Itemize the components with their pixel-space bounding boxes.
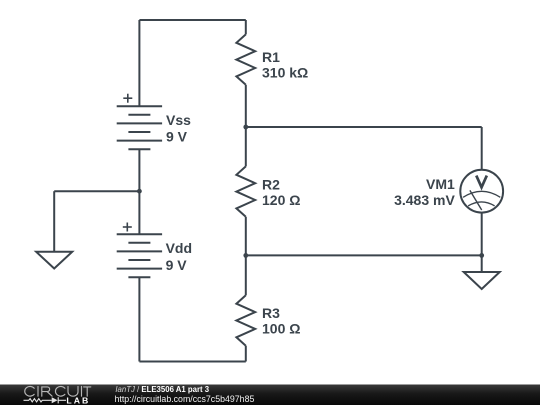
wire VM1 bottom lead [481,213,483,256]
svg-text:9 V: 9 V [166,128,188,144]
resistor R1 [236,34,255,84]
node C junction dot [137,189,142,194]
wire node B to right node [246,254,482,256]
svg-text:100 Ω: 100 Ω [262,321,300,337]
svg-text:http://circuitlab.com/ccs7c5b4: http://circuitlab.com/ccs7c5b497h85 [115,394,255,404]
svg-text:R1: R1 [262,49,280,65]
svg-text:3.483 mV: 3.483 mV [394,192,455,208]
wire R3 top lead [245,255,247,295]
wire top rail [139,19,245,21]
battery V1 Vss plates [117,106,162,149]
wire right ground lead [481,255,483,272]
voltmeter VM1 symbol [460,170,503,213]
node A junction dot [243,125,248,130]
logo resistor-diode symbol [24,397,67,403]
svg-text:310 kΩ: 310 kΩ [262,65,308,81]
node D junction dot [479,253,484,258]
wire Vdd top lead [138,191,140,234]
resistor R2 [236,166,255,216]
wire R1 top lead [245,20,247,34]
footer bar [0,385,540,406]
wire left ground lead [53,191,55,252]
svg-text:R3: R3 [262,305,280,321]
wire node A to voltmeter [246,126,482,128]
svg-text:9 V: 9 V [166,257,188,273]
node B junction dot [243,253,248,258]
svg-text:R2: R2 [262,177,280,193]
ground right [464,272,500,289]
svg-text:120 Ω: 120 Ω [262,192,300,208]
svg-text:LAB: LAB [66,395,90,405]
wire bottom rail [139,361,245,363]
wire R3 bottom lead [245,346,247,362]
wire R1 bottom lead [245,85,247,127]
svg-text:Vss: Vss [166,112,191,128]
svg-text:VM1: VM1 [426,176,455,192]
battery V1 plus sign [123,94,132,103]
wire Vdd bottom lead [138,277,140,361]
wire Vss bottom lead [138,149,140,191]
battery V2 Vdd plates [117,234,162,277]
logo CIRCUIT word [25,386,91,396]
resistor R3 [236,295,255,345]
svg-text:Vdd: Vdd [166,240,192,256]
battery V2 plus sign [123,223,132,232]
wire VM1 top lead [481,127,483,170]
wire R2 top lead [245,127,247,166]
wire R2 bottom lead [245,217,247,256]
svg-text:IanTJ / ELE3506 A1 part 3: IanTJ / ELE3506 A1 part 3 [115,385,209,394]
wire node C to left ground [54,190,139,192]
wire Vss top lead [138,20,140,106]
ground left [36,252,72,269]
